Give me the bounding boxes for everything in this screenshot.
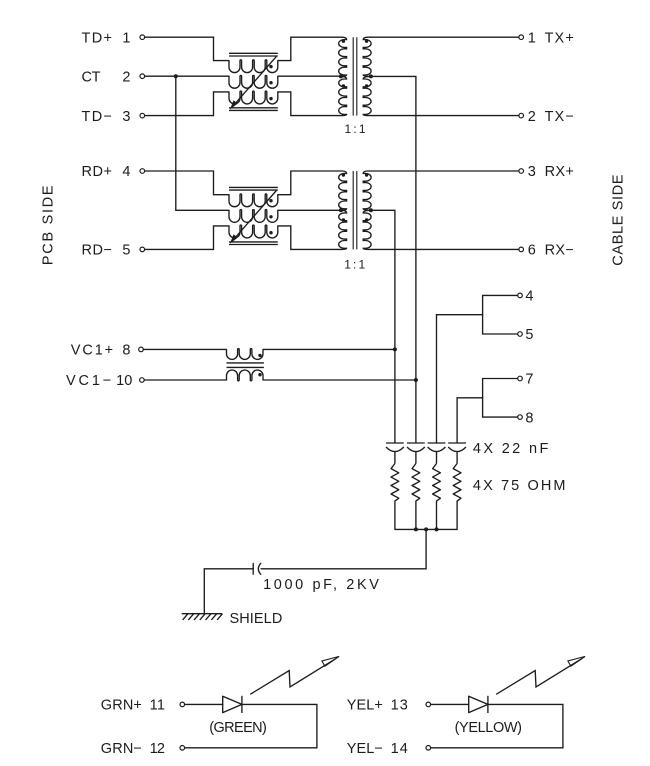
choke L2 diagonal xyxy=(233,191,276,240)
svg-text:GRN−: GRN− xyxy=(101,741,142,757)
choke L1 dot w2 xyxy=(269,81,272,84)
svg-text:2: 2 xyxy=(122,69,130,85)
choke L2 winding 2 xyxy=(229,210,278,223)
wire TD- pin3 to choke L1 xyxy=(145,92,229,116)
svg-text:RD+: RD+ xyxy=(82,164,113,180)
transformer T2 CT junction right xyxy=(369,208,373,212)
svg-text:1000 pF, 2KV: 1000 pF, 2KV xyxy=(263,577,379,593)
transformer T1 secondary top winding xyxy=(363,37,371,76)
capacitor C5 curved plate xyxy=(258,563,261,575)
transformer T2 dot secondary bottom xyxy=(365,218,368,221)
resistor R1 xyxy=(391,464,399,530)
svg-text:1:1: 1:1 xyxy=(344,257,365,271)
wire shield cap to ground xyxy=(204,569,253,614)
transformer T1 dot primary bottom xyxy=(342,84,345,87)
svg-text:CT: CT xyxy=(82,69,101,85)
svg-text:RX−: RX− xyxy=(545,243,574,259)
svg-text:2: 2 xyxy=(528,109,536,125)
svg-text:1: 1 xyxy=(528,30,536,46)
choke L1 core bars xyxy=(229,53,278,56)
transformer T2 secondary bottom winding xyxy=(363,210,371,249)
svg-text:VC1+: VC1+ xyxy=(71,343,113,359)
choke L1 diagonal arrowhead xyxy=(230,100,238,109)
svg-text:RD−: RD− xyxy=(82,242,113,258)
svg-text:12: 12 xyxy=(150,741,165,757)
wire pins 7/8 to column 4 xyxy=(457,398,483,443)
transformer T2 core xyxy=(353,171,357,249)
svg-text:(GREEN): (GREEN) xyxy=(209,720,267,736)
junction bus stem xyxy=(424,527,428,531)
LED D1 triangle xyxy=(223,696,242,712)
capacitor C2 bottom plate xyxy=(407,447,425,452)
pin 3 terminal xyxy=(140,113,145,118)
wire TD+ pin1 to choke L1 xyxy=(145,37,229,60)
wire T1 secondary bottom to pin TX- xyxy=(368,115,519,117)
svg-text:CABLE SIDE: CABLE SIDE xyxy=(611,174,627,266)
svg-text:3: 3 xyxy=(528,164,536,180)
choke L3 dot bottom xyxy=(258,373,261,376)
wire pins 4/5 bracket xyxy=(483,295,518,334)
choke L3 dot top xyxy=(258,354,261,357)
svg-text:VC1−: VC1− xyxy=(66,373,111,389)
pin 2 terminal xyxy=(140,74,145,79)
pin 8 cable-side terminal xyxy=(518,415,523,420)
resistor R3 xyxy=(433,464,441,530)
wire VC1+ pin to choke L3 xyxy=(143,348,226,350)
pin 4 terminal xyxy=(140,169,145,174)
pin TX- terminal xyxy=(519,113,524,118)
choke L1 core bars bottom xyxy=(229,108,278,111)
pin 5 cable-side terminal xyxy=(518,332,523,337)
wire T2 secondary bottom to pin RX- xyxy=(368,248,519,250)
wire CT pin2 to choke L1 middle xyxy=(145,75,229,77)
pin YEL+ terminal xyxy=(426,702,431,707)
choke L1 winding 1 xyxy=(229,60,278,73)
transformer T1 primary bottom winding xyxy=(339,76,347,115)
transformer T2 secondary top winding xyxy=(363,171,371,210)
wire choke L2 w3 to T2 primary bottom xyxy=(278,226,342,250)
svg-text:1: 1 xyxy=(122,30,130,46)
transformer T2 dot secondary top xyxy=(365,173,368,176)
svg-text:1:1: 1:1 xyxy=(345,122,366,136)
wire pins 4/5 to column 3 xyxy=(437,315,483,443)
svg-text:YEL+: YEL+ xyxy=(347,698,383,714)
transformer T2 CT junction left xyxy=(339,208,343,212)
capacitor C3 lead xyxy=(436,452,438,464)
transformer T1 CT junction left xyxy=(339,74,343,78)
wire choke L2 w2 to T2 primary CT xyxy=(278,209,341,211)
wire choke L2 w1 to T2 primary top xyxy=(278,171,342,195)
svg-text:GRN+: GRN+ xyxy=(101,698,142,714)
choke L2 dot w3 xyxy=(269,231,272,234)
wire T2 CT to column 1 xyxy=(371,210,395,443)
transformer T2 dot primary top xyxy=(342,173,345,176)
capacitor C4 top plate xyxy=(448,442,466,444)
capacitor C2 top plate xyxy=(407,442,425,444)
choke L2 core bars xyxy=(229,187,278,190)
choke L2 winding 3 xyxy=(229,225,278,238)
svg-text:(YELLOW): (YELLOW) xyxy=(455,720,522,736)
svg-text:6: 6 xyxy=(528,243,536,259)
LED D1 cathode bar xyxy=(241,696,243,713)
pin VC1- terminal xyxy=(140,378,145,383)
svg-text:SHIELD: SHIELD xyxy=(230,611,283,627)
pin RX- terminal xyxy=(519,247,524,252)
choke L2 dot w2 xyxy=(269,215,272,218)
transformer T1 dot primary top xyxy=(342,40,345,43)
LED D1 arrow xyxy=(250,659,336,695)
svg-text:TX−: TX− xyxy=(545,109,574,125)
junction bus col2 xyxy=(414,527,418,531)
pin 1 terminal xyxy=(140,35,145,40)
resistor R4 xyxy=(453,464,461,530)
wire T1 secondary top to pin TX+ xyxy=(368,36,519,38)
svg-text:TD+: TD+ xyxy=(82,30,113,46)
pin 5 terminal xyxy=(140,247,145,252)
svg-text:8: 8 xyxy=(122,343,130,359)
capacitor C3 top plate xyxy=(428,442,446,444)
wire YEL+ to LED D2 xyxy=(431,703,469,705)
capacitor C2 lead xyxy=(415,452,417,464)
wire choke L1 w2 to T1 primary CT xyxy=(278,75,341,77)
svg-text:11: 11 xyxy=(150,698,165,714)
pin VC1+ terminal xyxy=(139,347,144,352)
svg-text:3: 3 xyxy=(122,109,130,125)
svg-text:4: 4 xyxy=(525,289,533,305)
svg-text:TD−: TD− xyxy=(82,109,113,125)
transformer T1 CT junction right xyxy=(369,74,373,78)
transformer T2 dot primary bottom xyxy=(342,218,345,221)
svg-text:YEL−: YEL− xyxy=(347,741,383,757)
capacitor C1 top plate xyxy=(386,442,404,444)
svg-text:13: 13 xyxy=(391,698,408,714)
wire CT branch down to choke L2 middle xyxy=(176,76,229,210)
pin 4 cable-side terminal xyxy=(518,293,523,298)
choke L1 diagonal xyxy=(233,56,276,105)
svg-text:4X 75 OHM: 4X 75 OHM xyxy=(473,478,566,494)
transformer T1 primary top winding xyxy=(339,37,347,76)
pin TX+ terminal xyxy=(519,35,524,40)
choke L3 winding top xyxy=(227,349,264,360)
transformer T2 primary bottom winding xyxy=(339,210,347,249)
svg-text:4: 4 xyxy=(122,164,130,180)
junction bus col3 xyxy=(435,527,439,531)
wire VC1+ to column 1 xyxy=(263,348,395,350)
pin 7 cable-side terminal xyxy=(518,376,523,381)
svg-text:RX+: RX+ xyxy=(545,164,574,180)
wire GRN+ to LED D1 xyxy=(185,703,223,705)
wire T2 secondary top to pin RX+ xyxy=(368,170,519,172)
resistor R2 xyxy=(412,464,420,530)
junction VC1+ column 1 xyxy=(393,347,397,351)
svg-text:10: 10 xyxy=(116,373,132,389)
wire VC1- pin to choke L3 xyxy=(144,379,226,381)
pin GRN+ terminal xyxy=(180,702,185,707)
svg-text:TX+: TX+ xyxy=(545,30,574,46)
wire choke L1 w1 to T1 primary top xyxy=(278,37,342,60)
capacitor C3 bottom plate xyxy=(428,447,446,452)
pin YEL- terminal xyxy=(426,746,431,751)
transformer T1 dot secondary top xyxy=(365,40,368,43)
svg-text:PCB SIDE: PCB SIDE xyxy=(41,185,57,265)
wire RD+ pin4 to choke L2 xyxy=(145,171,229,195)
choke L2 core bars bottom xyxy=(229,242,278,245)
LED D2 cathode bar xyxy=(487,696,489,713)
transformer T2 primary top winding xyxy=(339,171,347,210)
transformer T1 dot secondary bottom xyxy=(365,84,368,87)
transformer T1 core xyxy=(353,37,357,115)
wire RD- pin5 to choke L2 xyxy=(145,226,229,250)
choke L2 winding 1 xyxy=(229,194,278,207)
ground shield symbol xyxy=(182,614,223,620)
svg-text:4X 22 nF: 4X 22 nF xyxy=(473,441,549,457)
wire pins 7/8 bracket xyxy=(483,379,518,418)
choke L1 dot w3 xyxy=(269,97,272,100)
choke L2 diagonal arrowhead xyxy=(230,234,238,243)
capacitor C1 bottom plate xyxy=(386,447,404,452)
capacitor C5 flat plate xyxy=(252,563,254,575)
choke L1 dot w1 xyxy=(269,65,272,68)
choke L2 dot w1 xyxy=(269,199,272,202)
transformer T1 secondary bottom winding xyxy=(363,76,371,115)
wire VC1- to column 2 xyxy=(263,379,416,381)
LED D2 arrow xyxy=(496,659,582,695)
capacitor C1 lead xyxy=(394,452,396,464)
wire termination bus xyxy=(395,528,457,530)
wire choke L1 w3 to T1 primary bottom xyxy=(278,92,342,116)
capacitor C4 bottom plate xyxy=(448,447,466,452)
wire T1 CT to column 2 xyxy=(371,76,416,443)
svg-text:14: 14 xyxy=(391,741,408,757)
svg-text:7: 7 xyxy=(525,372,533,388)
choke L3 winding bottom xyxy=(227,370,264,381)
junction VC1- column 2 xyxy=(414,378,418,382)
pin GRN- terminal xyxy=(180,746,185,751)
choke L1 winding 2 xyxy=(229,75,278,88)
capacitor C4 lead xyxy=(456,452,458,464)
svg-text:5: 5 xyxy=(525,327,533,343)
pin RX+ terminal xyxy=(519,169,524,174)
LED D2 triangle xyxy=(469,696,488,712)
wire LED D1 to GRN- xyxy=(185,704,317,747)
wire LED D2 to YEL- xyxy=(431,704,563,747)
choke L1 winding 3 xyxy=(229,91,278,104)
svg-text:5: 5 xyxy=(122,243,130,259)
svg-text:8: 8 xyxy=(525,410,533,426)
junction CT branch xyxy=(174,74,178,78)
choke L3 core bars xyxy=(227,363,264,368)
wire bus to shield cap xyxy=(261,529,426,568)
